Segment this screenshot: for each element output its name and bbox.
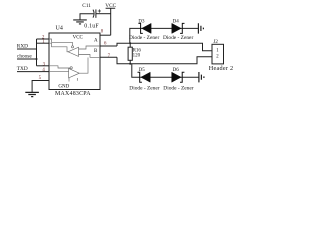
wire net B (pin7 to header pin2) (117, 57, 212, 64)
ground (bottom row, rotated) (199, 72, 204, 82)
svg-text:D6: D6 (173, 68, 180, 73)
svg-text:choose: choose (17, 54, 32, 60)
wire C11 right to VCC rail (96, 13, 111, 15)
svg-text:TXD: TXD (17, 66, 28, 72)
wire choose (17, 58, 37, 60)
left trunk wire (pins 1,2,3 / RXD / choose) (36, 39, 38, 66)
zener diode D3 (138, 23, 151, 33)
wire RXD (17, 48, 37, 50)
pin 8 stub (100, 34, 111, 36)
pin 5 stub (32, 80, 49, 82)
ground (pin 5) (25, 92, 39, 96)
svg-text:A: A (94, 38, 98, 43)
wire C11 left to ground (80, 14, 94, 20)
pin 2 stub (37, 38, 50, 40)
ground (top row, rotated) (198, 23, 203, 33)
pin 6 stub (100, 45, 117, 47)
svg-text:GND: GND (58, 84, 69, 89)
junction R16 top / net A (129, 42, 131, 44)
power VCC symbol (106, 8, 116, 35)
svg-text:MAX483CPA: MAX483CPA (55, 91, 91, 97)
zener diode D4 (172, 23, 185, 33)
wire bottom protection row (132, 64, 199, 77)
pin 4 stub (42, 71, 49, 73)
capacitor C11 plus sign (98, 9, 101, 12)
pin 7 stub (100, 56, 117, 58)
svg-text:D4: D4 (173, 19, 180, 24)
pin 3 stub (37, 65, 50, 67)
junction R16 bottom / net B (129, 63, 131, 65)
svg-text:U4: U4 (56, 26, 63, 32)
svg-text:Diode - Zener: Diode - Zener (163, 35, 193, 41)
receiver buffer inside U4 (49, 39, 100, 57)
driver buffer inside U4 (49, 58, 88, 82)
svg-text:Header 2: Header 2 (209, 65, 234, 72)
svg-text:120: 120 (133, 54, 141, 59)
zener diode D5 (138, 72, 151, 82)
svg-text:D5: D5 (139, 68, 146, 73)
wire net A (pin6 to header pin1) (117, 43, 212, 50)
svg-text:J2: J2 (213, 40, 218, 45)
capacitor C11 (93, 9, 96, 17)
wire TXD (17, 71, 42, 73)
svg-text:D3: D3 (138, 19, 145, 24)
resistor R16 (128, 43, 132, 64)
svg-text:C11: C11 (82, 3, 91, 9)
junction choose (36, 58, 38, 60)
zener diode D6 (172, 72, 185, 82)
wire pin5 to ground (32, 81, 49, 93)
svg-text:Diode - Zener: Diode - Zener (129, 86, 159, 92)
svg-text:RXD: RXD (17, 43, 28, 49)
wire top protection row (130, 28, 199, 43)
svg-text:Diode - Zener: Diode - Zener (163, 86, 193, 92)
svg-text:VCC: VCC (73, 35, 84, 40)
header J2 (212, 44, 224, 64)
svg-text:Diode - Zener: Diode - Zener (129, 35, 159, 41)
svg-text:0.1uF: 0.1uF (84, 23, 99, 29)
svg-text:VCC: VCC (105, 3, 116, 9)
IC U4 body (49, 33, 100, 90)
pin 1 stub (37, 42, 50, 44)
ground (C11) (73, 20, 87, 24)
